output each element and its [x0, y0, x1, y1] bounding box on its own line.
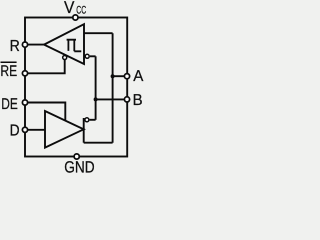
- junction node B: [94, 97, 98, 101]
- enable bubble RE on receiver slope: [63, 56, 67, 60]
- wire RE enable (horizontal + stub up to bubble): [28, 60, 65, 73]
- terminal D: [22, 127, 27, 132]
- terminal DE: [22, 100, 27, 105]
- wire DE enable (horizontal + stub down to driver slope): [28, 103, 66, 121]
- terminal RE: [22, 71, 27, 76]
- hysteresis symbol inside receiver: [67, 40, 82, 52]
- svg-text:CC: CC: [76, 4, 86, 16]
- svg-text:GND: GND: [64, 159, 94, 176]
- wire driver tip stub up to bubble: [83, 118, 85, 130]
- svg-text:DE: DE: [1, 96, 18, 113]
- wire driver output bottom: [84, 142, 113, 144]
- wire receiver B input (from bubble): [90, 55, 96, 57]
- wire receiver A input: [84, 32, 113, 34]
- bubble driver inverting output: [85, 118, 89, 122]
- svg-text:RE: RE: [0, 63, 17, 80]
- svg-text:V: V: [64, 0, 75, 17]
- terminal B: [124, 97, 129, 102]
- junction node A: [111, 74, 115, 78]
- IC outline box: [25, 18, 127, 157]
- wire driver tip down: [83, 130, 85, 143]
- receiver triangle (with hysteresis): [44, 24, 84, 64]
- wire B bus vertical: [95, 56, 97, 120]
- driver triangle: [45, 111, 84, 148]
- terminal VCC: [73, 15, 78, 20]
- wire A terminal: [113, 75, 125, 77]
- svg-text:A: A: [133, 68, 144, 85]
- svg-text:D: D: [10, 122, 20, 139]
- terminal A: [124, 74, 129, 79]
- terminal R: [22, 42, 27, 47]
- wire B terminal: [96, 98, 125, 100]
- terminal GND: [74, 154, 79, 159]
- wire R output: [28, 44, 45, 46]
- wire A bus vertical: [112, 33, 114, 143]
- svg-text:B: B: [133, 92, 143, 109]
- wire driver inverting output (from bubble): [90, 119, 96, 121]
- svg-text:R: R: [10, 38, 20, 55]
- bubble receiver inverting input B: [85, 54, 89, 58]
- wire D input: [28, 129, 46, 131]
